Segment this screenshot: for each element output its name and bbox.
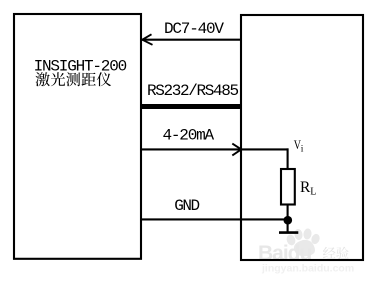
ground symbol [279, 231, 298, 234]
svg-text:DC7-40V: DC7-40V [164, 20, 224, 38]
bus RS232/RS485 (thick bar) [140, 104, 242, 109]
svg-text:i: i [301, 144, 304, 154]
device box (load side) [241, 15, 363, 260]
resistor RL [281, 169, 295, 205]
svg-text:RS232/RS485: RS232/RS485 [147, 82, 239, 100]
wire DC7-40V [142, 39, 242, 41]
arrowhead into right box [232, 144, 241, 156]
svg-text:GND: GND [174, 197, 199, 215]
svg-text:4-20mA: 4-20mA [163, 127, 215, 145]
svg-text:jingyan.baidu.com: jingyan.baidu.com [261, 262, 354, 274]
junction node (GND / RL) [284, 216, 293, 225]
device box U1 INSIGHT-200 laser rangefinder [14, 14, 141, 259]
wire resistor RL to ground junction [287, 205, 289, 232]
wire node Vi down to resistor RL [287, 148, 289, 169]
wire 4-20mA [142, 148, 289, 150]
wire GND [142, 218, 289, 220]
label 激光测距仪 [35, 72, 111, 86]
watermark 经验 [323, 247, 336, 259]
watermark baidu logo paw [285, 228, 321, 256]
arrowhead into left box [142, 34, 152, 45]
svg-text:L: L [310, 187, 316, 198]
